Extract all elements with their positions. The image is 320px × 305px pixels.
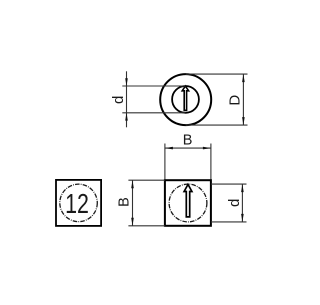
arrow down (outside)	[125, 78, 128, 86]
dashed circle (cylinder hole)	[169, 184, 207, 222]
inner circle d	[172, 86, 199, 113]
svg-text:D: D	[227, 95, 244, 106]
dimension line	[126, 71, 128, 127]
arrow up (inside)	[241, 184, 244, 192]
badge dashed circle	[60, 184, 98, 222]
arrow right (inside)	[203, 147, 211, 150]
keyway arrow (top view)	[182, 86, 188, 110]
extension line top	[186, 73, 248, 75]
extension line bottom	[128, 225, 165, 227]
arrow up (inside)	[131, 180, 134, 188]
extension line top	[128, 179, 165, 181]
arrow up (outside)	[125, 113, 128, 121]
svg-text:d: d	[226, 199, 243, 207]
keyway arrow (front view)	[184, 184, 192, 217]
dimension line	[165, 147, 211, 149]
dimension line	[242, 74, 244, 125]
extension line top	[122, 85, 185, 87]
dimension line	[241, 184, 243, 222]
dimension line	[132, 180, 134, 226]
arrow left (inside)	[165, 147, 173, 150]
badge square	[56, 180, 101, 226]
extension line bottom	[186, 124, 248, 126]
square plate	[165, 180, 211, 226]
svg-text:d: d	[110, 96, 127, 104]
arrow up (inside)	[242, 74, 245, 82]
svg-text:B: B	[117, 197, 133, 207]
extension line bottom	[122, 112, 185, 114]
extension line top	[211, 183, 247, 185]
svg-text:B: B	[183, 132, 193, 148]
arrow down (inside)	[241, 214, 244, 222]
svg-text:12: 12	[65, 188, 89, 219]
outer circle D	[160, 74, 211, 125]
arrow down (inside)	[242, 117, 245, 125]
extension line left	[164, 144, 166, 181]
extension line bottom	[211, 221, 247, 223]
arrow down (inside)	[131, 218, 134, 226]
extension line right	[210, 144, 212, 181]
